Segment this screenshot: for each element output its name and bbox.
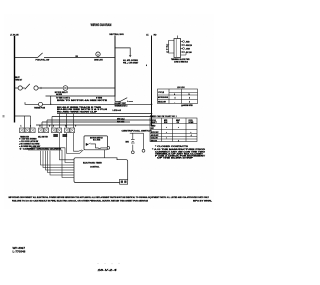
lamp DRUM LITE <box>96 52 100 56</box>
table 2 timer chart <box>150 118 197 142</box>
switch S3 door <box>25 84 30 89</box>
wire line C left <box>15 87 19 89</box>
svg-text:COOL: COOL <box>189 120 193 122</box>
scan grain <box>4 14 214 209</box>
wire F4 <box>42 121 130 123</box>
svg-text:DRM LITE: DRM LITE <box>94 59 103 61</box>
wire <box>22 87 25 89</box>
wire line D neutral return <box>46 95 116 97</box>
svg-text:INLET: INLET <box>15 77 20 79</box>
svg-text:OF THE BLWR STRIP: OF THE BLWR STRIP <box>157 158 195 160</box>
terminal box marks <box>20 129 74 132</box>
table 1 cycle chart <box>158 89 198 104</box>
svg-text:BRN TO MOTOR 4A SEE NOTE: BRN TO MOTOR 4A SEE NOTE <box>57 99 109 102</box>
electronic timer control box U1 <box>74 158 128 183</box>
svg-text:PNL + CVR GRMT: PNL + CVR GRMT <box>123 62 139 64</box>
wire vertical V1 <box>50 96 52 104</box>
svg-text:DRY: DRY <box>151 128 154 130</box>
switch inside motor box <box>86 143 91 146</box>
svg-text:18-V-2-4: 18-V-2-4 <box>98 268 118 272</box>
pin GRN <box>181 48 183 50</box>
svg-text:CYCLE: CYCLE <box>158 92 165 94</box>
heater element H1 <box>53 134 58 137</box>
wire centrifugal right leg <box>143 133 145 149</box>
switch S2 hi-limit <box>114 97 116 102</box>
wire centrifugal top <box>130 132 144 134</box>
svg-text:CYCLE: CYCLE <box>151 120 156 122</box>
svg-text:THERMOSTAT 2: THERMOSTAT 2 <box>115 104 128 107</box>
switch S1 push-to-start <box>38 53 43 58</box>
relay coil motor relay <box>63 86 68 91</box>
wire <box>38 87 63 89</box>
wire line E <box>25 102 38 104</box>
svg-text:RUN: RUN <box>164 122 167 124</box>
bus L1 <box>14 36 16 123</box>
svg-text:CENTRIFUGAL SWITCH: CENTRIFUGAL SWITCH <box>122 130 153 133</box>
wire F1 <box>57 113 152 115</box>
svg-text:TO TMR N CONT 2: TO TMR N CONT 2 <box>56 97 70 99</box>
svg-text:MOTOR SWITCH: MOTOR SWITCH <box>90 138 103 140</box>
svg-text:WIRING DIAGRAM: WIRING DIAGRAM <box>91 23 112 27</box>
svg-text:N.O. RUN: N.O. RUN <box>93 140 101 142</box>
wire heater stub <box>129 101 134 103</box>
wire F5 <box>36 124 152 126</box>
svg-text:THERM FUSE: THERM FUSE <box>34 108 46 110</box>
wire F3 <box>47 119 152 121</box>
svg-text:G‒: G‒ <box>166 49 168 51</box>
wire line C right <box>68 87 115 89</box>
svg-text:* CLOSED CONTACTS: * CLOSED CONTACTS <box>155 145 190 148</box>
svg-text:CONTROL: CONTROL <box>90 166 100 168</box>
svg-text:DOWN: DOWN <box>189 122 194 124</box>
wire harness bundle <box>28 133 83 178</box>
wire F2 <box>52 116 152 118</box>
svg-text:ELECTRONIC TIMER: ELECTRONIC TIMER <box>83 163 102 165</box>
wire branch to ground note <box>115 48 130 55</box>
svg-text:FAILURE TO DO SO CAN RESULT IN: FAILURE TO DO SO CAN RESULT IN FIRE, ELE… <box>12 199 149 202</box>
svg-text:L1‒: L1‒ <box>167 44 170 46</box>
svg-text:COOL DN: COOL DN <box>151 138 158 140</box>
wire centrifugal left leg <box>132 133 134 139</box>
svg-text:MOTOR-RUN: MOTOR-RUN <box>158 97 169 99</box>
svg-text:TIMER MTR: TIMER MTR <box>20 136 30 138</box>
wire line A right segment <box>44 57 115 59</box>
svg-text:END SIG: END SIG <box>151 140 158 142</box>
heater element H2 <box>63 134 68 137</box>
scan speck <box>3 115 5 117</box>
wire line E right <box>43 103 152 105</box>
wire from motor to control <box>104 150 106 158</box>
breaker contact element <box>131 139 135 141</box>
svg-text:(-)=NORM OPEN: (-)=NORM OPEN <box>181 105 193 107</box>
svg-text:MFG BY WHRL: MFG BY WHRL <box>193 200 213 202</box>
wire line A left segment <box>15 57 38 59</box>
connector CD1 <box>18 86 22 90</box>
svg-text:L-770548: L-770548 <box>13 250 26 254</box>
svg-text:L2‒: L2‒ <box>167 51 170 53</box>
motor switch box M1 <box>84 136 108 150</box>
svg-text:IMPORTANT: DISCONNECT ALL ELEC: IMPORTANT: DISCONNECT ALL ELECTRICAL POW… <box>9 196 210 199</box>
terminal strip TB1 <box>20 128 75 133</box>
terminal circle T2 <box>142 149 145 152</box>
svg-text:LT.: LT. <box>146 34 149 36</box>
connector J1 on control <box>120 179 128 184</box>
svg-text:NEUTRAL BUS: NEUTRAL BUS <box>109 33 124 36</box>
connector circle on motor lead <box>107 147 110 150</box>
connector CD2 <box>34 86 38 90</box>
svg-text:SELECT: SELECT <box>151 122 157 124</box>
terminal circle T1 <box>131 151 134 154</box>
bus L2 <box>151 36 153 126</box>
thermal fuse TF1 <box>39 102 43 106</box>
wire pins into terminal strip <box>24 116 26 128</box>
pigtail jumper <box>181 53 186 55</box>
svg-text:THRM ST: THRM ST <box>15 80 22 82</box>
wire line G <box>15 115 31 117</box>
svg-text:ON: ON <box>177 122 179 124</box>
svg-text:N‒: N‒ <box>166 47 168 49</box>
svg-text:PUSH-PULL SW: PUSH-PULL SW <box>36 59 50 61</box>
svg-text:8 9: 8 9 <box>66 126 80 128</box>
svg-text:MOTOR RELAY: MOTOR RELAY <box>55 91 69 94</box>
power terminal block TB2 <box>174 39 181 58</box>
bus N <box>114 36 116 97</box>
pin WHT <box>181 44 183 46</box>
footer marks <box>97 262 100 265</box>
svg-text:–WH 120: –WH 120 <box>185 45 192 47</box>
pin BLK <box>181 51 183 53</box>
pin RED <box>181 41 183 43</box>
svg-text:SEL SW HTR: SEL SW HTR <box>38 136 49 138</box>
